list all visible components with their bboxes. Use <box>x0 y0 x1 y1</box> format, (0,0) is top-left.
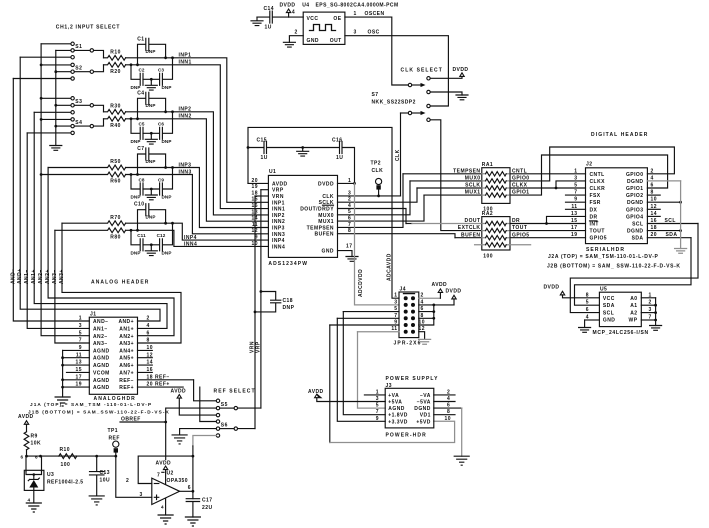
wire TOUT <box>510 225 586 231</box>
svg-text:SCL: SCL <box>665 218 676 224</box>
resistor R30 <box>104 103 126 114</box>
header J3 POWERHDR body <box>385 383 434 438</box>
svg-text:1: 1 <box>354 11 357 17</box>
wire SDA wrap to U5 <box>575 238 692 306</box>
svg-text:4: 4 <box>292 10 295 16</box>
eeprom U5 MCP_24LC256 body <box>593 287 649 336</box>
svg-text:−5VA: −5VA <box>417 400 431 406</box>
svg-text:MUX1: MUX1 <box>318 219 334 225</box>
ground at C14 <box>251 17 263 26</box>
svg-text:CLK: CLK <box>372 168 384 174</box>
svg-text:INN3: INN3 <box>179 169 192 175</box>
wire S3 top throw <box>40 97 71 100</box>
J2 pin 17 TOUT <box>571 225 605 235</box>
J1 pin 8 AN3+ <box>119 338 149 348</box>
J2 pin 18 DGND <box>627 225 682 235</box>
svg-text:OE: OE <box>333 16 341 22</box>
svg-text:REF SELECT: REF SELECT <box>214 389 256 395</box>
wire GPIO5 <box>510 232 586 238</box>
svg-text:+3.3VD: +3.3VD <box>388 419 408 425</box>
svg-text:17: 17 <box>346 244 352 250</box>
J4 pin 8 <box>419 313 435 320</box>
wire S6 mid to ground <box>180 429 217 435</box>
pin 5 MUX0 <box>318 181 410 219</box>
svg-text:R70: R70 <box>110 215 121 221</box>
svg-text:ADCDVDD: ADCDVDD <box>358 269 364 297</box>
svg-text:EPS_SG-8002CA4.0000M-PCM: EPS_SG-8002CA4.0000M-PCM <box>316 3 399 9</box>
ground at U5 GND <box>579 320 591 332</box>
wire J4-7 to J3-9 <box>337 318 385 421</box>
J1 pin 5 AN2- <box>79 330 108 340</box>
svg-text:C5: C5 <box>138 122 144 127</box>
J4 pin 2 to AVDD <box>419 293 441 299</box>
svg-text:JPR-2X6: JPR-2X6 <box>394 341 422 347</box>
svg-text:AN1−: AN1− <box>93 327 108 333</box>
U5 pin 2 A1 <box>630 300 657 310</box>
capacitor C15 <box>247 137 303 161</box>
J1 pin 3 AN1- <box>79 323 108 333</box>
svg-text:U3: U3 <box>47 472 54 478</box>
svg-text:C1: C1 <box>137 36 144 42</box>
resistor array RA1 <box>482 162 510 212</box>
svg-text:REF+: REF+ <box>155 382 170 388</box>
svg-text:19: 19 <box>571 232 577 238</box>
svg-text:U5: U5 <box>600 287 607 293</box>
svg-text:TEMPSEN: TEMPSEN <box>307 225 334 231</box>
svg-text:15: 15 <box>571 218 577 224</box>
svg-text:AN3−: AN3− <box>52 269 58 284</box>
pin 2 SCLK <box>319 188 417 206</box>
svg-text:DNP: DNP <box>146 159 156 164</box>
svg-text:22U: 22U <box>202 505 213 511</box>
svg-text:C8: C8 <box>138 177 144 182</box>
wire S5 pole to VRP <box>238 407 261 409</box>
J4 pin 12 to ground <box>419 326 425 339</box>
switch S5 <box>216 399 237 417</box>
svg-text:GPIO5: GPIO5 <box>512 232 530 238</box>
wire S4 top throw <box>40 118 71 121</box>
svg-text:DVDD: DVDD <box>453 67 469 73</box>
pin 12 INN3 <box>252 228 286 238</box>
svg-text:+1.8VD: +1.8VD <box>388 413 408 419</box>
svg-text:DNP: DNP <box>146 49 156 54</box>
header J2 SERIALHDR body <box>586 162 648 253</box>
svg-text:C18: C18 <box>283 298 294 304</box>
svg-text:INP4: INP4 <box>272 238 285 244</box>
svg-text:POWER-HDR: POWER-HDR <box>386 432 427 438</box>
wire S5 mid to OBREF node <box>164 408 216 459</box>
svg-text:4: 4 <box>28 498 31 503</box>
resistor R80 <box>55 228 126 241</box>
wire S6 bottom to OBREF buffer output <box>193 436 216 447</box>
svg-text:GPIO1: GPIO1 <box>512 190 530 196</box>
header J1 ANALOGHDR body <box>89 311 137 402</box>
svg-text:6: 6 <box>586 307 589 313</box>
svg-text:5: 5 <box>376 403 379 409</box>
J2 pin 20 SDA <box>632 232 691 242</box>
svg-text:GPIO5: GPIO5 <box>590 236 608 242</box>
switch S1 <box>71 42 94 59</box>
J1 pin 11 AGND <box>61 352 109 361</box>
svg-text:C2: C2 <box>138 68 144 73</box>
wire GPIO0 wrap <box>510 147 674 182</box>
node bus AN2+ <box>48 168 174 336</box>
svg-text:C12: C12 <box>157 233 166 238</box>
svg-text:INP4: INP4 <box>184 235 197 241</box>
svg-text:SCL: SCL <box>632 222 643 228</box>
capacitor C8 <box>131 175 145 200</box>
jumper block J4 JPR-2X6 body <box>394 287 422 347</box>
svg-text:ANALOGHDR: ANALOGHDR <box>94 396 136 402</box>
J1 pin 19 AGND <box>61 382 109 391</box>
svg-text:17: 17 <box>571 225 577 231</box>
U5 pin 7 WP <box>629 315 657 324</box>
J1 pin 13 AGND <box>61 360 109 369</box>
svg-text:1U: 1U <box>336 155 343 161</box>
U5 pin 4 GND <box>585 315 616 324</box>
capacitor C10 <box>134 202 166 231</box>
svg-text:CLK: CLK <box>395 149 401 161</box>
ground of C8 C9 <box>145 188 157 200</box>
wire U5 address pins to ground <box>655 298 657 326</box>
ground at J1 <box>55 397 70 406</box>
svg-text:INN3: INN3 <box>272 232 285 238</box>
svg-text:8: 8 <box>147 338 150 344</box>
svg-text:7: 7 <box>157 472 160 478</box>
wire DGND to ground <box>680 181 682 249</box>
svg-text:DNP: DNP <box>162 195 172 200</box>
svg-text:2: 2 <box>147 316 150 322</box>
resistor R50 <box>48 159 126 170</box>
capacitor C6 <box>143 112 173 144</box>
svg-text:TEMPSEN: TEMPSEN <box>453 168 480 174</box>
svg-text:R20: R20 <box>110 69 121 75</box>
wire CLK from S7 to U1 <box>400 113 402 196</box>
wire op-amp pin 4 to ground <box>158 498 173 524</box>
svg-text:FSX: FSX <box>590 193 601 199</box>
svg-text:7: 7 <box>79 338 82 344</box>
wire REF- to S5 top <box>194 380 217 401</box>
wire VRP <box>260 190 262 408</box>
svg-text:AN3+: AN3+ <box>59 269 65 284</box>
J2 pin 14 GPIO4 <box>626 211 660 221</box>
J4 pin 4 to DVDD <box>419 299 454 306</box>
svg-text:6: 6 <box>188 485 191 491</box>
U5 pin 1 A0 <box>630 292 655 302</box>
wire SCL wrap to U5 <box>570 224 698 313</box>
wire INN4 <box>126 229 269 247</box>
pin 19 VRP <box>252 184 284 194</box>
wire S4 mid throw <box>54 125 70 128</box>
svg-text:C13: C13 <box>100 470 111 476</box>
J2 pin 3 CLKX <box>574 175 605 185</box>
svg-text:VCC: VCC <box>603 296 615 302</box>
pin 3 CLK <box>322 190 400 200</box>
svg-text:AND−: AND− <box>93 319 109 325</box>
capacitor C1 <box>137 36 165 65</box>
wire S3 bottom throw <box>34 111 71 113</box>
J4 pin 6 <box>419 306 435 313</box>
svg-text:13: 13 <box>571 211 577 217</box>
wire BUFEN to RA2 <box>455 232 482 238</box>
svg-text:AN3+: AN3+ <box>119 341 134 347</box>
svg-text:OPA350: OPA350 <box>167 478 189 484</box>
svg-text:SDA: SDA <box>603 303 615 309</box>
svg-text:INP3: INP3 <box>179 162 192 168</box>
svg-text:VRN: VRN <box>249 341 255 353</box>
resistor R40 <box>104 116 126 129</box>
ground of C11 C12 <box>145 243 157 255</box>
svg-text:VD1: VD1 <box>420 413 431 419</box>
J3 pin 6 DGND <box>414 403 461 413</box>
J1 pin 6 AN2+ <box>119 330 149 340</box>
svg-text:S5: S5 <box>221 402 228 408</box>
svg-text:DR: DR <box>512 218 520 224</box>
svg-text:C3: C3 <box>158 68 164 73</box>
svg-text:6: 6 <box>35 455 38 460</box>
svg-text:DGND: DGND <box>627 229 644 235</box>
svg-text:AGND: AGND <box>93 363 110 369</box>
svg-text:SDA: SDA <box>666 232 678 238</box>
pin 8 BUFEN <box>315 228 455 238</box>
svg-text:9: 9 <box>376 416 379 422</box>
svg-text:WP: WP <box>629 317 638 323</box>
svg-text:INP2: INP2 <box>272 213 285 219</box>
svg-text:VCC: VCC <box>307 16 319 22</box>
voltage reference U3 REF1004I-2.5 <box>21 455 84 504</box>
svg-text:1: 1 <box>79 316 82 322</box>
svg-text:R9: R9 <box>31 433 38 439</box>
wire CLKX CLKR <box>510 181 586 190</box>
svg-text:7: 7 <box>376 409 379 415</box>
svg-text:CLK SELECT: CLK SELECT <box>401 68 443 74</box>
J1 pin 18 REF- <box>119 374 193 383</box>
wire S1 top throw <box>41 43 71 45</box>
svg-text:J2A (TOP) = SAM_TSM-110-01-L-D: J2A (TOP) = SAM_TSM-110-01-L-DV-P <box>548 254 659 260</box>
svg-text:GPIO0: GPIO0 <box>512 176 530 182</box>
wire DOUT to RA2 <box>406 218 482 224</box>
svg-text:6: 6 <box>651 183 654 189</box>
svg-text:BUFEN: BUFEN <box>315 232 334 238</box>
svg-text:FSR: FSR <box>590 200 601 206</box>
svg-text:AGND: AGND <box>93 348 110 354</box>
svg-text:J2B (BOTTOM) = SAM_ SSW-110-22: J2B (BOTTOM) = SAM_ SSW-110-22-F-D-VS-K <box>547 263 681 269</box>
svg-text:AN5+: AN5+ <box>119 356 134 362</box>
svg-text:6: 6 <box>147 330 150 336</box>
svg-text:INN2: INN2 <box>272 219 285 225</box>
J4 pin pads <box>404 296 415 334</box>
svg-text:BUFEN: BUFEN <box>461 232 480 238</box>
power AVDD at U2 <box>156 460 172 484</box>
svg-text:MUX1: MUX1 <box>465 190 481 196</box>
node bus AN1+ <box>34 112 167 328</box>
svg-text:DNP: DNP <box>283 305 295 311</box>
pin 15 INP1 <box>252 197 285 207</box>
J3 pin 9 +3.3VD <box>376 416 408 426</box>
op-amp U2 OPA350 <box>152 470 188 504</box>
capacitor C14 <box>257 6 303 31</box>
svg-text:INP2: INP2 <box>179 107 192 113</box>
svg-text:DNP: DNP <box>131 251 141 256</box>
svg-text:SCLK: SCLK <box>465 183 480 189</box>
svg-text:SDA: SDA <box>632 236 644 242</box>
svg-text:AND+: AND+ <box>118 319 134 325</box>
switch S3 <box>71 97 94 114</box>
svg-text:DIGITAL HEADER: DIGITAL HEADER <box>591 132 648 138</box>
svg-text:GND: GND <box>307 38 319 44</box>
svg-text:R40: R40 <box>110 123 121 129</box>
svg-text:VRP: VRP <box>256 341 262 353</box>
J1 pin 9 AGND <box>63 345 110 354</box>
svg-text:AVDD: AVDD <box>171 389 187 395</box>
svg-text:AVDD: AVDD <box>272 181 288 187</box>
svg-text:AND+: AND+ <box>17 268 23 284</box>
wire J4-9 to J3-10 <box>329 325 331 443</box>
wire DR to J2 <box>510 216 586 225</box>
svg-text:INP1: INP1 <box>179 53 192 59</box>
svg-text:3: 3 <box>574 175 577 181</box>
wire switch common collector <box>55 50 57 145</box>
wire S2 pole to R20 <box>94 65 104 72</box>
wire INN3 <box>126 169 269 234</box>
J4 pin 9 <box>330 320 399 326</box>
svg-text:S1: S1 <box>75 44 82 50</box>
wire J1 AGND collector <box>62 350 64 397</box>
ground of C5 C6 <box>145 132 157 144</box>
wire VRN <box>254 196 256 429</box>
svg-text:DNP: DNP <box>146 103 156 108</box>
svg-text:GND: GND <box>322 249 334 255</box>
svg-text:GPIO4: GPIO4 <box>626 214 644 220</box>
svg-text:DOUT: DOUT <box>465 218 481 224</box>
svg-text:J1B (BOTTOM) = SAM_SSW-110-22-: J1B (BOTTOM) = SAM_SSW-110-22-F-D-VS-K <box>28 410 170 415</box>
ground at U4 <box>283 42 295 47</box>
svg-text:100: 100 <box>483 253 493 259</box>
svg-text:DVDD: DVDD <box>280 3 296 9</box>
svg-text:DNP: DNP <box>162 85 172 90</box>
svg-text:10: 10 <box>445 416 451 422</box>
ground at S6 <box>172 435 187 444</box>
capacitor C11 <box>131 230 147 255</box>
svg-text:REF+: REF+ <box>119 385 134 391</box>
wire TEMPSEN to RA1 <box>403 168 482 174</box>
svg-text:+VA: +VA <box>388 393 399 399</box>
svg-text:S2: S2 <box>75 65 82 71</box>
svg-text:AVDD: AVDD <box>308 389 324 395</box>
J1 pin 4 AN1+ <box>119 323 149 333</box>
power DVDD at U5 <box>544 284 600 298</box>
svg-text:CH1,2 INPUT SELECT: CH1,2 INPUT SELECT <box>56 24 120 30</box>
svg-text:OUT: OUT <box>330 38 342 44</box>
svg-text:VRN: VRN <box>272 194 284 200</box>
pin 13 INP2 <box>252 209 285 219</box>
svg-text:U1: U1 <box>269 169 276 175</box>
J2 pin 15 INT <box>571 218 599 228</box>
svg-text:DGND: DGND <box>627 179 644 185</box>
svg-text:−VA: −VA <box>420 393 431 399</box>
wire MUX1 to RA1 <box>424 190 482 196</box>
svg-text:S6: S6 <box>221 422 228 428</box>
ground at C17 <box>185 517 200 526</box>
svg-text:INN2: INN2 <box>179 114 192 120</box>
svg-text:TP1: TP1 <box>108 428 119 434</box>
svg-text:A1: A1 <box>630 303 637 309</box>
J1 pin 15 VCOM <box>67 367 110 376</box>
J1 pin 16 AN7+ <box>119 367 153 376</box>
power AVDD at J4 <box>432 282 448 298</box>
wire op-amp output OBREF <box>180 446 195 499</box>
svg-text:POWER SUPPLY: POWER SUPPLY <box>386 376 439 382</box>
svg-text:INN4: INN4 <box>184 241 197 247</box>
pin 20 AVDD <box>248 178 288 188</box>
svg-text:A2: A2 <box>630 311 637 317</box>
ground DGND <box>675 249 687 254</box>
wire ADCDVDD DVDD to J4 <box>355 183 400 305</box>
svg-text:3: 3 <box>140 492 143 498</box>
ground at U3 <box>26 498 41 513</box>
J3 pin 10 +5VD <box>416 416 451 426</box>
wire S1 pole to R10 <box>94 50 104 57</box>
svg-text:U4: U4 <box>302 3 309 9</box>
wire S6 pole to VRN <box>238 428 255 430</box>
node bus AN1- <box>27 133 89 329</box>
power AVDD at J3 <box>308 389 385 401</box>
svg-text:DNP: DNP <box>131 139 141 144</box>
J2 pin 9 FSR <box>566 197 601 207</box>
svg-text:ADS1234PW: ADS1234PW <box>268 261 308 267</box>
J2 pin 16 SCL <box>632 218 698 228</box>
J1 pin 1 AND- <box>79 316 109 326</box>
capacitor C18 <box>254 290 295 313</box>
wire S2 top throw <box>40 64 71 67</box>
wire INN1 <box>126 60 269 209</box>
svg-text:OSC: OSC <box>368 30 380 36</box>
wire INP4 <box>126 222 269 241</box>
svg-text:C17: C17 <box>202 498 213 504</box>
svg-text:CLKX: CLKX <box>512 183 528 189</box>
wire S2 bottom throw <box>13 78 71 80</box>
oscillator U4 EPS_SG-8002CA4.0000M-PCM <box>302 3 398 45</box>
wire S3 mid throw <box>54 104 70 107</box>
svg-text:R60: R60 <box>110 179 121 185</box>
wire INN2 <box>126 114 269 222</box>
svg-text:VCOM: VCOM <box>93 370 110 376</box>
J2 pin 5 CLKR <box>574 183 605 193</box>
svg-text:J2: J2 <box>586 162 592 168</box>
J3 pin 7 +1.8VD <box>376 409 408 419</box>
svg-text:S7: S7 <box>372 92 379 98</box>
ground at J4 <box>419 339 431 344</box>
svg-text:+5VD: +5VD <box>416 419 430 425</box>
svg-text:C10: C10 <box>134 202 145 208</box>
svg-text:10U: 10U <box>100 478 111 484</box>
power AVDD at REF select <box>171 389 217 416</box>
svg-text:J1A (TOP) = SAM_TSM -110-01-L-: J1A (TOP) = SAM_TSM -110-01-L-DV-P <box>30 402 152 407</box>
wire EXTCLK <box>430 120 482 231</box>
ground at J3 <box>454 456 469 465</box>
svg-text:DR: DR <box>590 214 598 220</box>
svg-text:DVDD: DVDD <box>318 181 334 187</box>
switch S2 <box>71 63 94 80</box>
wire S3 pole to R30 <box>94 105 104 112</box>
svg-text:19: 19 <box>252 184 258 190</box>
power AVDD at R9 <box>18 414 34 432</box>
U5 pin 8 VCC <box>586 292 615 302</box>
svg-text:AN3−: AN3− <box>93 341 108 347</box>
power DVDD at U4 <box>280 3 296 18</box>
svg-text:DNP: DNP <box>131 85 141 90</box>
svg-text:C6: C6 <box>158 122 164 127</box>
